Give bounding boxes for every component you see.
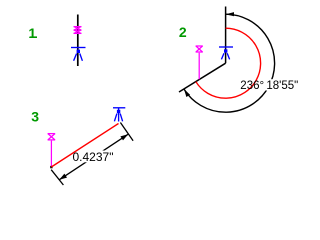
wire: example 2 diagonal extension line	[179, 63, 226, 92]
svg-text:2: 2	[179, 24, 187, 40]
node: example 1 blue station marker	[71, 48, 86, 61]
text mask box breaking the dimension arc	[240, 79, 297, 90]
arrowhead at lower end of dimension arc	[184, 89, 190, 97]
extension line at P2	[120, 123, 133, 141]
wire: example 2 vertical extension line	[225, 7, 227, 64]
svg-text:1: 1	[28, 25, 36, 41]
dimension line	[59, 134, 128, 180]
svg-text:3: 3	[31, 109, 39, 125]
node: example 1 double point marker (magenta)	[74, 27, 82, 34]
extension line at P1	[51, 170, 63, 185]
svg-text:0.4237": 0.4237"	[73, 150, 114, 164]
arrowhead right	[120, 134, 128, 140]
node: small black dot at measured point P1	[50, 166, 52, 168]
red measured arc (r=35)	[196, 28, 261, 98]
node: example 3 magenta point flag	[48, 134, 56, 167]
arrowhead left	[59, 174, 67, 180]
aligned dimension lines for example 3	[51, 123, 133, 186]
wire: example 1 vertical line	[77, 15, 79, 67]
white mask breaking the dimension line at the text	[72, 151, 114, 163]
red measured line	[51, 124, 118, 168]
dimension arc (black, r=49)	[184, 14, 275, 112]
node: example 2 magenta point flag	[196, 46, 203, 79]
svg-text:236° 18'55": 236° 18'55"	[240, 80, 298, 92]
node: example 3 blue station marker	[113, 108, 125, 122]
arrowhead at top of dimension arc	[226, 12, 234, 16]
node: example 2 blue station marker	[219, 47, 233, 59]
